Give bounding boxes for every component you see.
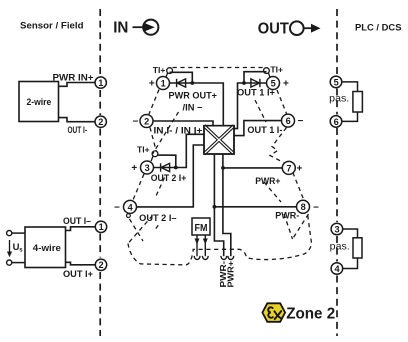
node 3: [141, 161, 154, 174]
zone divider left dashed line: [99, 9, 101, 336]
dashed switch node6-node7: [270, 128, 287, 163]
wire power bus left (PWR-): [214, 154, 223, 256]
dashed pointer OUT2I+: [156, 178, 165, 197]
FM pin 2 with arrow: [203, 235, 208, 256]
node 7: [282, 161, 295, 174]
wire node5 to diode to isolator: [234, 83, 267, 129]
wire terminal5-resistor-terminal6: [341, 82, 357, 122]
svg-text:+: +: [131, 163, 137, 174]
terminal dot lower (4-wire supply): [7, 260, 12, 265]
wire terminal3-resistor-terminal4: [342, 229, 357, 269]
dashed TI bus top: [173, 67, 264, 69]
terminal 1 (4-wire): [95, 221, 106, 232]
zone divider right dashed line: [336, 9, 338, 336]
junction node7 bus: [221, 166, 225, 170]
dashed vee below node8 b: [293, 214, 309, 239]
wire node4 to isolator: [137, 145, 205, 207]
svg-text:2-wire: 2-wire: [27, 97, 52, 108]
Us supply arrow: [7, 240, 12, 257]
node 8: [297, 200, 310, 213]
resistor R2 (passive load): [353, 238, 362, 258]
svg-text:−: −: [298, 116, 304, 127]
dashed cross below node4 b: [128, 216, 153, 244]
node 2: [140, 115, 153, 128]
wire node7 to power bus: [223, 167, 282, 169]
diode D1: [177, 79, 186, 87]
wire power bus right (PWR+): [223, 154, 231, 256]
dashed link crossing to node3: [153, 112, 179, 154]
resistor R1 (passive load): [353, 92, 363, 113]
terminal 3 (PLC): [331, 223, 343, 235]
wire node8 to power bus: [214, 206, 296, 208]
svg-text:6: 6: [286, 116, 291, 126]
svg-text:−: −: [114, 202, 120, 213]
dashed vee below node8 a: [284, 214, 293, 239]
svg-text:2: 2: [144, 116, 149, 126]
svg-text:OUT 1 I+: OUT 1 I+: [237, 87, 275, 97]
OUT direction symbol: [258, 21, 321, 38]
svg-text:2: 2: [99, 260, 104, 270]
svg-text:PWR OUT+: PWR OUT+: [169, 91, 218, 101]
Ex hexagon symbol: [262, 303, 285, 322]
terminal 1 (2-wire): [95, 77, 106, 88]
node 1: [157, 77, 170, 90]
dashed link node2-node3 hook: [150, 128, 156, 152]
node 5: [267, 77, 280, 90]
svg-text:2: 2: [98, 117, 103, 127]
node 4: [124, 200, 137, 213]
svg-text:OUT I-: OUT I-: [68, 125, 88, 135]
wire 2-wire PWR IN+: [59, 83, 96, 87]
svg-text:−: −: [133, 117, 139, 128]
dashed cross below node4 a: [130, 219, 144, 241]
svg-text:OUT 2 I–: OUT 2 I–: [139, 213, 176, 223]
junction node after D1: [190, 81, 194, 85]
svg-text:PLC / DCS: PLC / DCS: [355, 23, 402, 34]
terminal 6 (PLC): [330, 116, 342, 128]
FM module box: [192, 218, 210, 235]
svg-text:5: 5: [334, 77, 339, 87]
plug contact PWR+: [228, 256, 234, 260]
plug contact FM1: [194, 256, 200, 260]
wire TI+ loop 3: [158, 155, 176, 167]
svg-text:+: +: [283, 79, 289, 90]
terminal 2 (2-wire): [95, 116, 106, 127]
svg-text:+: +: [297, 163, 303, 174]
terminal 2 (4-wire): [95, 259, 106, 270]
4-wire source box: [25, 227, 66, 268]
junction node8 bus: [213, 205, 217, 209]
svg-text:+: +: [149, 79, 155, 90]
TI+ hook at node 1: [166, 68, 173, 78]
svg-text:PWR-: PWR-: [275, 210, 299, 220]
svg-text:OUT I–: OUT I–: [63, 216, 91, 226]
junction node before D3: [242, 81, 246, 85]
diode D2: [161, 163, 170, 171]
dashed link node5-node6: [277, 90, 287, 114]
svg-text:1: 1: [98, 78, 103, 88]
dashed link node7-node8: [293, 173, 305, 202]
svg-text:1: 1: [99, 222, 104, 232]
plug contact FM2: [202, 256, 208, 260]
svg-text:pas.: pas.: [329, 93, 349, 105]
svg-text:−: −: [313, 202, 319, 213]
junction node after D2: [174, 166, 178, 170]
svg-text:FM: FM: [195, 223, 208, 234]
svg-text:OUT 1 I-: OUT 1 I-: [247, 125, 282, 135]
svg-text:Sensor / Field: Sensor / Field: [20, 21, 84, 32]
svg-text:TI+: TI+: [153, 66, 166, 75]
dashed link node3-node4: [133, 174, 144, 200]
terminal dot upper (4-wire supply): [7, 231, 12, 236]
dashed link node1-node2: [149, 90, 159, 115]
svg-text:pas.: pas.: [330, 241, 350, 253]
wire 4-wire OUT I+: [66, 262, 96, 265]
hook under node 4: [126, 214, 130, 218]
svg-text:7: 7: [286, 163, 291, 173]
svg-text:6: 6: [334, 117, 339, 127]
IN direction symbol: [113, 20, 158, 37]
svg-text:1: 1: [161, 78, 166, 88]
dashed pointer PWR+: [264, 182, 281, 202]
wire TI+ loop 5: [244, 72, 267, 83]
dashed path to plug area and node8: [128, 214, 312, 265]
svg-text:PWR+: PWR+: [226, 261, 235, 288]
wire node2 to isolator: [153, 121, 213, 126]
svg-text:4-wire: 4-wire: [33, 243, 61, 254]
node 6: [282, 114, 295, 127]
svg-text:3: 3: [335, 224, 340, 234]
svg-text:8: 8: [301, 202, 306, 212]
isolator block: [204, 126, 234, 154]
wire node3 to diode to isolator: [154, 134, 205, 167]
svg-text:PWR+: PWR+: [255, 176, 280, 186]
dashed pointer below OUT 2 I-: [155, 225, 158, 230]
wire 4-wire OUT I-: [66, 227, 96, 231]
svg-text:OUT 2 I+: OUT 2 I+: [151, 173, 187, 183]
diode D3: [251, 79, 260, 87]
terminal 4 (PLC): [331, 263, 343, 275]
svg-text:4: 4: [128, 202, 134, 212]
FM pin 1 with arrow: [195, 235, 200, 256]
TI+ hook at node 3: [151, 151, 158, 161]
svg-text:3: 3: [145, 163, 150, 173]
svg-text:/IN −: /IN −: [183, 103, 203, 113]
wire supply upper: [12, 232, 25, 234]
wire node1 to diode to isolator: [170, 83, 224, 126]
wire supply lower: [12, 262, 25, 264]
2-wire sensor box: [19, 82, 59, 122]
svg-text:TI+: TI+: [270, 66, 283, 75]
svg-text:PWR IN+: PWR IN+: [53, 73, 94, 83]
svg-text:TI+: TI+: [137, 146, 150, 155]
dashed pointer OUT1I+: [255, 100, 266, 122]
terminal 5 (PLC): [330, 76, 342, 88]
wire TI+ loop 1: [170, 72, 193, 83]
svg-text:4: 4: [335, 264, 341, 274]
TI+ hook at node 5: [264, 68, 271, 78]
svg-text:Zone 2: Zone 2: [286, 306, 335, 323]
svg-text:IN: IN: [113, 20, 128, 37]
wire 2-wire OUT I-: [59, 118, 96, 122]
svg-text:OUT I+: OUT I+: [63, 269, 93, 279]
svg-text:OUT: OUT: [258, 21, 290, 38]
plug contact PWR-: [221, 256, 227, 260]
wire node6 to isolator: [234, 121, 282, 136]
